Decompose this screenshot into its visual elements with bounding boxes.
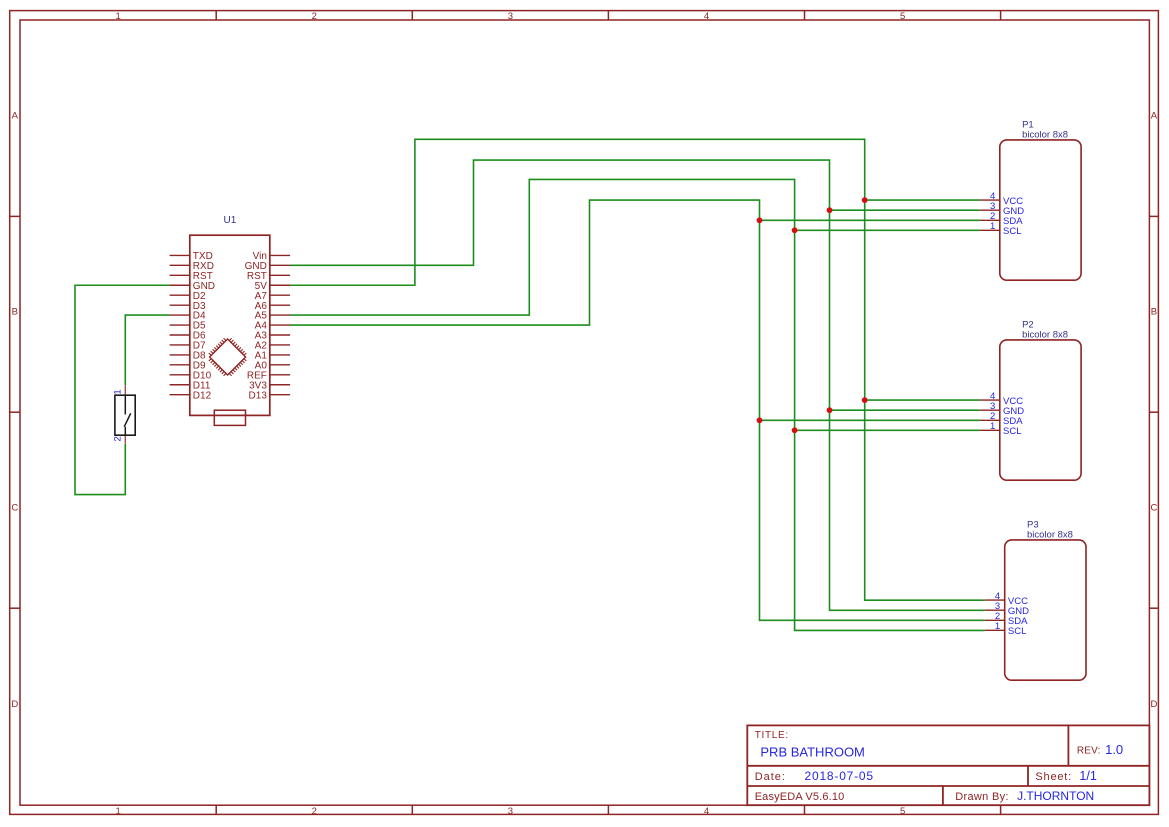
svg-text:5: 5 <box>900 11 905 22</box>
svg-text:B: B <box>1151 307 1157 318</box>
svg-text:J.THORNTON: J.THORNTON <box>1017 789 1094 803</box>
svg-text:1: 1 <box>990 421 995 432</box>
svg-text:U1: U1 <box>224 215 237 226</box>
svg-text:B: B <box>12 307 18 318</box>
svg-text:bicolor 8x8: bicolor 8x8 <box>1027 529 1073 540</box>
svg-text:1: 1 <box>115 11 120 22</box>
svg-text:3: 3 <box>508 11 513 22</box>
svg-text:C: C <box>1150 502 1157 513</box>
svg-text:SCL: SCL <box>1003 226 1021 237</box>
svg-text:SCL: SCL <box>1008 626 1026 637</box>
svg-text:3: 3 <box>508 806 513 817</box>
svg-text:EasyEDA V5.6.10: EasyEDA V5.6.10 <box>755 791 845 803</box>
svg-text:4: 4 <box>704 11 709 22</box>
svg-text:5: 5 <box>900 806 905 817</box>
svg-text:PRB BATHROOM: PRB BATHROOM <box>760 745 865 760</box>
svg-text:D: D <box>1150 699 1157 710</box>
svg-text:C: C <box>11 502 18 513</box>
svg-text:D13: D13 <box>249 390 268 401</box>
svg-text:Date:: Date: <box>755 771 786 783</box>
svg-text:1.0: 1.0 <box>1105 742 1123 757</box>
svg-text:2018-07-05: 2018-07-05 <box>805 769 874 783</box>
svg-text:Drawn By:: Drawn By: <box>955 791 1008 803</box>
svg-text:2: 2 <box>312 11 317 22</box>
svg-text:1: 1 <box>112 389 123 394</box>
svg-text:A: A <box>1151 110 1158 121</box>
svg-text:TITLE:: TITLE: <box>755 730 789 741</box>
svg-text:1: 1 <box>115 806 120 817</box>
svg-text:A: A <box>12 110 19 121</box>
svg-text:2: 2 <box>312 806 317 817</box>
svg-text:SCL: SCL <box>1003 426 1021 437</box>
svg-text:D12: D12 <box>193 390 212 401</box>
svg-text:bicolor 8x8: bicolor 8x8 <box>1022 329 1068 340</box>
svg-text:1: 1 <box>995 621 1000 632</box>
svg-text:REV:: REV: <box>1077 745 1101 756</box>
svg-text:Sheet:: Sheet: <box>1035 771 1072 783</box>
svg-text:4: 4 <box>704 806 709 817</box>
svg-text:1: 1 <box>990 221 995 232</box>
svg-text:bicolor 8x8: bicolor 8x8 <box>1022 129 1068 140</box>
svg-text:2: 2 <box>112 436 123 441</box>
svg-text:D: D <box>11 699 18 710</box>
svg-text:1/1: 1/1 <box>1079 769 1096 783</box>
